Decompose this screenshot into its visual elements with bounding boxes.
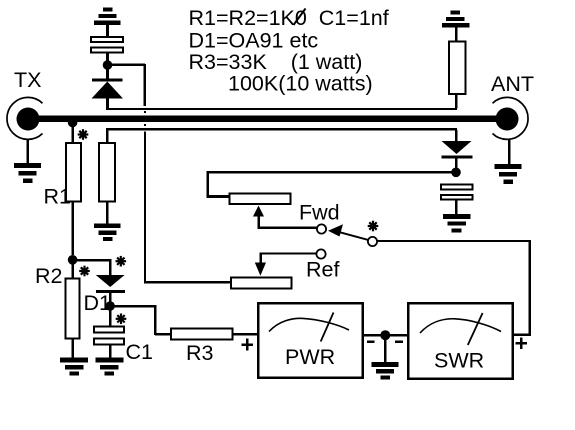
svg-text:R3: R3 bbox=[186, 341, 214, 365]
potentiometer (Fwd calibrate) bbox=[230, 194, 291, 205]
switch pivot contact bbox=[368, 237, 377, 246]
wire: D1 junction to R3 bbox=[114, 305, 171, 336]
ground at ANT bbox=[495, 140, 522, 185]
ANT label bbox=[491, 72, 534, 96]
notes text line 2: D1=OA91 etc bbox=[189, 29, 319, 53]
resistor (middle, reflected load) bbox=[99, 130, 115, 224]
svg-text:R1=R2=1K0 C1=1nf: R1=R2=1K0 C1=1nf bbox=[189, 6, 389, 30]
wire: reflected sample line (left column to ANT diode) bbox=[106, 128, 457, 141]
potentiometer (Ref calibrate) bbox=[231, 278, 292, 289]
trimmer capacitor (TX side) bbox=[91, 37, 123, 61]
svg-text:TX: TX bbox=[14, 68, 41, 92]
wire: PWR to SWR with ground junction bbox=[363, 334, 408, 337]
Fwd label bbox=[299, 201, 340, 225]
meter PWR scale arc bbox=[269, 313, 349, 342]
node: ANT diode/cap junction bbox=[451, 168, 461, 178]
wire: pivot to SWR meter + bbox=[377, 240, 531, 336]
wire: vertical feed down to Ref potentiometer bbox=[144, 132, 231, 284]
svg-text:R1: R1 bbox=[44, 185, 71, 209]
asterisk at D1 top bbox=[116, 256, 127, 267]
switch arm with arrowhead bbox=[328, 224, 371, 240]
switch contact Ref bbox=[316, 249, 325, 258]
R2 label bbox=[35, 264, 62, 288]
switch contact Fwd bbox=[317, 224, 326, 233]
plus sign at PWR meter bbox=[242, 339, 254, 351]
svg-text:100K(10 watts): 100K(10 watts) bbox=[228, 72, 373, 96]
wiper arrow of Fwd potentiometer bbox=[253, 206, 317, 230]
ground at meter junction bbox=[372, 335, 399, 379]
node: D1/C1/R3 junction bbox=[106, 301, 115, 310]
ground below R2 bbox=[60, 358, 88, 376]
R1 label bbox=[44, 185, 71, 209]
ANT connector J2 bbox=[493, 97, 529, 139]
R3 label bbox=[186, 341, 214, 365]
node: R1/R2/D1 junction bbox=[68, 255, 78, 265]
notes text line 3: R3=33K (1 watt) bbox=[189, 50, 363, 74]
wire: R3 to PWR meter bbox=[233, 333, 258, 336]
diode D1 (cathode down) bbox=[76, 259, 125, 304]
node: cap/diode junction (TX side) bbox=[103, 60, 113, 70]
wire: forward sample line (diode to R near ANT) bbox=[106, 95, 457, 110]
wire from junction to vertical feed bbox=[111, 64, 146, 106]
diode (TX side, cathode up) bbox=[92, 69, 124, 109]
trimmer capacitor (ANT side) bbox=[441, 185, 473, 215]
ground at TX bbox=[14, 139, 41, 183]
notes text line 4: 100K(10 watts) bbox=[228, 72, 373, 96]
meter SWR scale arc bbox=[420, 313, 501, 345]
wire: junction to Fwd potentiometer bbox=[207, 171, 453, 198]
ground (top, inverted) above trimmer capacitor bbox=[94, 8, 121, 38]
resistor R3 bbox=[171, 329, 233, 340]
resistor (ANT side, to top ground) bbox=[449, 42, 466, 95]
ground below ANT-side capacitor bbox=[443, 214, 471, 233]
D1 label bbox=[84, 291, 111, 315]
resistor R2 bbox=[66, 259, 80, 358]
svg-text:D1=OA91 etc: D1=OA91 etc bbox=[189, 29, 319, 53]
ground below C1 bbox=[95, 358, 123, 376]
svg-text:ANT: ANT bbox=[491, 72, 534, 96]
resistor R1 bbox=[66, 122, 81, 255]
svg-text:Ref: Ref bbox=[306, 258, 339, 282]
wire: Ref contact to Ref potentiometer wiper bbox=[260, 252, 317, 263]
meter PWR box bbox=[258, 303, 362, 377]
diode (ANT side, cathode down) bbox=[442, 141, 473, 168]
svg-text:C1: C1 bbox=[126, 340, 153, 364]
plus sign at SWR meter bbox=[516, 338, 528, 350]
asterisk at C1 top bbox=[116, 314, 127, 325]
C1 label bbox=[126, 340, 153, 364]
wiper arrow of Ref potentiometer bbox=[255, 263, 266, 276]
wire crossing speck 1 bbox=[144, 111, 146, 113]
minus sign left of SWR bbox=[395, 341, 403, 344]
wire crossing speck 2 bbox=[144, 124, 146, 126]
ground below middle resistor bbox=[94, 223, 121, 241]
asterisk at R1 top bbox=[78, 129, 89, 140]
svg-text:Fwd: Fwd bbox=[299, 201, 340, 225]
Ref label bbox=[306, 258, 339, 282]
SWR label bbox=[434, 349, 484, 373]
TX label bbox=[14, 68, 41, 92]
meter SWR box bbox=[408, 303, 512, 378]
TX connector J1 bbox=[7, 97, 43, 139]
ground (top, inverted) above resistor near ANT bbox=[442, 11, 470, 42]
svg-text:SWR: SWR bbox=[434, 349, 484, 373]
node: R1 on transmission line bbox=[68, 118, 78, 128]
asterisk at R2 top bbox=[79, 266, 90, 277]
notes text line 1: R1=R2=1K0 C1=1nf bbox=[189, 6, 389, 30]
capacitor C1 bbox=[94, 310, 124, 358]
svg-text:PWR: PWR bbox=[285, 345, 335, 369]
asterisk at switch pivot bbox=[368, 221, 379, 232]
node: meter common junction bbox=[380, 330, 390, 340]
minus sign right of PWR bbox=[367, 341, 375, 344]
svg-text:R2: R2 bbox=[35, 264, 62, 288]
transmission line (thick wire TX to ANT) bbox=[36, 116, 497, 123]
PWR label bbox=[285, 345, 335, 369]
svg-text:R3=33K (1 watt): R3=33K (1 watt) bbox=[189, 50, 363, 74]
